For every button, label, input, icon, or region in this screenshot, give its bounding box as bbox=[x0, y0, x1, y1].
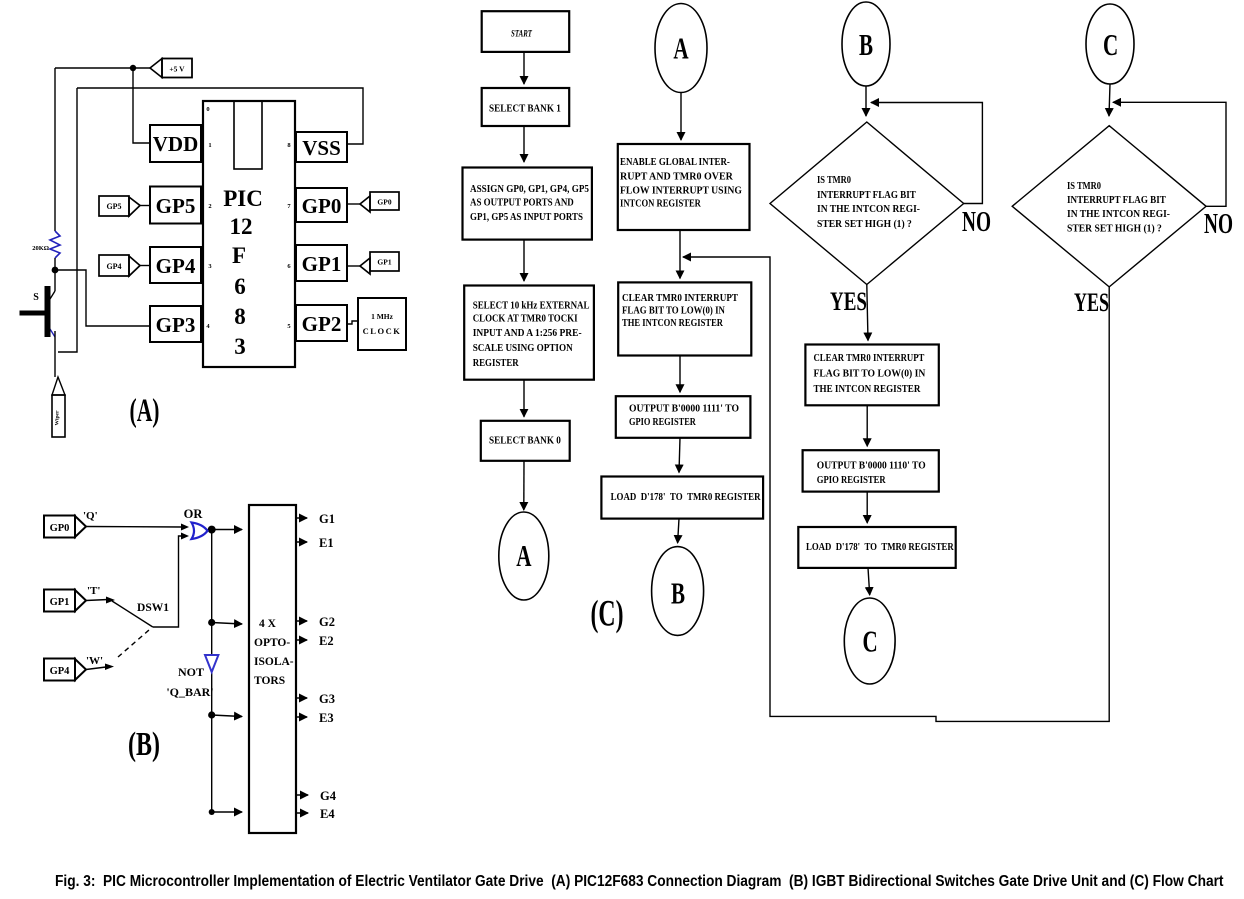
svg-text:GP1, GP5 AS INPUT PORTS: GP1, GP5 AS INPUT PORTS bbox=[470, 211, 583, 223]
svg-text:1 MHz: 1 MHz bbox=[371, 312, 394, 321]
svg-text:GP1: GP1 bbox=[50, 597, 70, 608]
svg-text:'W': 'W' bbox=[86, 655, 103, 667]
svg-text:A: A bbox=[673, 31, 688, 66]
svg-text:F: F bbox=[232, 243, 246, 268]
svg-text:8: 8 bbox=[234, 304, 246, 329]
svg-text:C: C bbox=[1103, 27, 1118, 62]
svg-text:C: C bbox=[863, 623, 878, 658]
svg-text:+5 V: +5 V bbox=[169, 65, 185, 74]
svg-text:'Q': 'Q' bbox=[83, 510, 98, 522]
svg-text:B: B bbox=[859, 27, 873, 62]
svg-text:G1: G1 bbox=[319, 512, 335, 526]
svg-text:FLAG BIT TO LOW(0) IN: FLAG BIT TO LOW(0) IN bbox=[622, 305, 726, 317]
svg-text:CLOCK: CLOCK bbox=[363, 326, 402, 336]
svg-text:DSW1: DSW1 bbox=[137, 602, 169, 614]
svg-text:RUPT AND TMR0 OVER: RUPT AND TMR0 OVER bbox=[620, 171, 733, 182]
svg-text:ENABLE GLOBAL INTER-: ENABLE GLOBAL INTER- bbox=[620, 156, 730, 168]
svg-text:E3: E3 bbox=[319, 711, 334, 725]
svg-text:STER SET HIGH (1) ?: STER SET HIGH (1) ? bbox=[817, 219, 912, 230]
svg-text:IS TMR0: IS TMR0 bbox=[817, 175, 851, 186]
svg-text:Fig. 3: PIC Microcontroller I: Fig. 3: PIC Microcontroller Implementati… bbox=[55, 873, 1224, 890]
svg-text:INTCON REGISTER: INTCON REGISTER bbox=[620, 198, 702, 210]
svg-text:GP1: GP1 bbox=[302, 252, 342, 276]
svg-text:OUTPUT B'0000 1111' TO: OUTPUT B'0000 1111' TO bbox=[629, 403, 739, 415]
svg-text:GP0: GP0 bbox=[50, 523, 70, 534]
svg-text:IN THE INTCON REGI-: IN THE INTCON REGI- bbox=[1067, 209, 1170, 220]
svg-text:CLOCK AT TMR0 TOCKI: CLOCK AT TMR0 TOCKI bbox=[473, 313, 578, 325]
svg-text:IN THE INTCON REGI-: IN THE INTCON REGI- bbox=[817, 204, 920, 215]
svg-text:NOT: NOT bbox=[178, 665, 204, 679]
svg-text:G2: G2 bbox=[319, 615, 335, 629]
svg-text:A: A bbox=[516, 538, 531, 573]
svg-text:GP4: GP4 bbox=[106, 262, 121, 271]
svg-text:E1: E1 bbox=[319, 536, 334, 550]
svg-text:(A): (A) bbox=[130, 393, 160, 430]
svg-text:INTERRUPT FLAG BIT: INTERRUPT FLAG BIT bbox=[1067, 195, 1166, 207]
svg-text:'T': 'T' bbox=[87, 585, 100, 597]
svg-text:SCALE USING OPTION: SCALE USING OPTION bbox=[473, 342, 574, 354]
svg-text:SELECT 10 kHz EXTERNAL: SELECT 10 kHz EXTERNAL bbox=[473, 300, 590, 312]
svg-text:GP0: GP0 bbox=[377, 198, 391, 207]
svg-text:12: 12 bbox=[230, 214, 253, 239]
svg-text:INTERRUPT FLAG BIT: INTERRUPT FLAG BIT bbox=[817, 190, 916, 202]
svg-text:YES: YES bbox=[830, 287, 867, 316]
svg-text:ASSIGN GP0, GP1, GP4, GP5: ASSIGN GP0, GP1, GP4, GP5 bbox=[470, 183, 589, 195]
svg-text:YES: YES bbox=[1074, 288, 1109, 317]
svg-text:GP5: GP5 bbox=[106, 202, 121, 211]
svg-text:GP4: GP4 bbox=[156, 254, 196, 278]
svg-text:20KΩ: 20KΩ bbox=[32, 245, 49, 252]
svg-text:3: 3 bbox=[234, 334, 246, 359]
svg-text:E2: E2 bbox=[319, 634, 334, 648]
svg-text:LOAD D'178' TO TMR0 REGISTE: LOAD D'178' TO TMR0 REGISTER bbox=[806, 541, 954, 553]
svg-text:GP3: GP3 bbox=[156, 313, 196, 337]
svg-text:ISOLA-: ISOLA- bbox=[254, 656, 294, 668]
svg-text:GP5: GP5 bbox=[156, 194, 196, 218]
svg-text:(B): (B) bbox=[128, 726, 160, 763]
svg-text:INPUT AND A 1:256 PRE-: INPUT AND A 1:256 PRE- bbox=[473, 327, 582, 339]
svg-text:REGISTER: REGISTER bbox=[473, 357, 520, 369]
svg-text:'Q_BAR': 'Q_BAR' bbox=[166, 685, 213, 699]
svg-text:NO: NO bbox=[1204, 208, 1233, 240]
svg-text:PIC: PIC bbox=[223, 186, 263, 211]
svg-text:VSS: VSS bbox=[302, 136, 341, 160]
svg-text:FLAG BIT TO LOW(0) IN: FLAG BIT TO LOW(0) IN bbox=[814, 368, 926, 380]
svg-text:THE INTCON REGISTER: THE INTCON REGISTER bbox=[622, 317, 724, 329]
svg-text:6: 6 bbox=[234, 274, 246, 299]
svg-text:(C): (C) bbox=[591, 592, 624, 634]
svg-text:0: 0 bbox=[206, 106, 209, 113]
svg-text:GPIO REGISTER: GPIO REGISTER bbox=[817, 474, 887, 486]
svg-text:OUTPUT B'0000 1110' TO: OUTPUT B'0000 1110' TO bbox=[817, 460, 926, 472]
svg-text:2: 2 bbox=[208, 203, 211, 210]
svg-text:GP0: GP0 bbox=[302, 194, 342, 218]
svg-text:START: START bbox=[511, 29, 533, 39]
svg-text:GP2: GP2 bbox=[302, 312, 342, 336]
svg-text:S: S bbox=[33, 292, 39, 303]
svg-text:OPTO-: OPTO- bbox=[254, 637, 290, 649]
svg-text:G3: G3 bbox=[319, 692, 335, 706]
svg-text:E4: E4 bbox=[320, 807, 335, 821]
svg-text:B: B bbox=[671, 576, 685, 611]
svg-text:TORS: TORS bbox=[254, 675, 285, 687]
svg-text:GP4: GP4 bbox=[50, 666, 71, 677]
svg-text:CLEAR TMR0 INTERRUPT: CLEAR TMR0 INTERRUPT bbox=[622, 292, 738, 304]
svg-text:NO: NO bbox=[962, 206, 991, 238]
svg-text:G4: G4 bbox=[320, 789, 337, 803]
svg-text:GP1: GP1 bbox=[377, 258, 391, 267]
svg-text:THE INTCON REGISTER: THE INTCON REGISTER bbox=[814, 383, 922, 395]
svg-text:CLEAR TMR0 INTERRUPT: CLEAR TMR0 INTERRUPT bbox=[814, 352, 925, 364]
svg-text:OR: OR bbox=[184, 507, 204, 521]
svg-text:FLOW INTERRUPT USING: FLOW INTERRUPT USING bbox=[620, 185, 742, 197]
svg-text:1: 1 bbox=[208, 142, 211, 149]
svg-text:VDD: VDD bbox=[153, 132, 199, 156]
svg-text:SELECT BANK 0: SELECT BANK 0 bbox=[489, 435, 561, 447]
svg-text:4 X: 4 X bbox=[259, 618, 277, 630]
svg-text:GPIO REGISTER: GPIO REGISTER bbox=[629, 416, 697, 428]
svg-text:STER SET HIGH (1) ?: STER SET HIGH (1) ? bbox=[1067, 223, 1162, 234]
svg-text:AS OUTPUT PORTS AND: AS OUTPUT PORTS AND bbox=[470, 197, 574, 209]
svg-text:IS TMR0: IS TMR0 bbox=[1067, 181, 1101, 192]
svg-text:SELECT BANK 1: SELECT BANK 1 bbox=[489, 103, 561, 115]
svg-text:Wiper: Wiper bbox=[55, 410, 61, 425]
svg-text:LOAD D'178' TO TMR0 REGISTE: LOAD D'178' TO TMR0 REGISTER bbox=[611, 491, 762, 503]
